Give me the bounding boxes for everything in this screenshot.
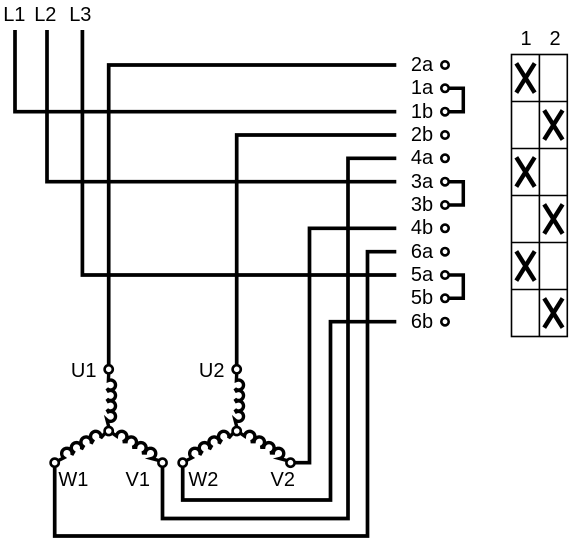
- winding 2 label V2: [235, 470, 295, 490]
- terminal label 1b: [402, 102, 442, 122]
- wire terminal 6a to W1: [55, 252, 397, 536]
- winding 2 label U2: [165, 361, 225, 381]
- terminal label 1a: [402, 78, 442, 98]
- wire L2 to terminal 3a: [47, 30, 396, 182]
- switch table X mark row2 col2: [544, 110, 562, 139]
- winding 1 star node: [105, 427, 113, 435]
- wire L1 to terminal 1b: [15, 30, 396, 112]
- terminal circle 2a: [441, 61, 448, 68]
- wire terminal 2a to U1: [109, 65, 397, 365]
- terminal label 2b: [402, 125, 442, 145]
- terminal label 3a: [402, 172, 442, 192]
- node label L1: [3, 5, 25, 25]
- winding 1 coil U1 (vertical inductor): [107, 374, 116, 427]
- switch table grid: [512, 55, 568, 337]
- terminal label 5b: [402, 288, 442, 308]
- switch table X mark row6 col2: [544, 298, 562, 327]
- wire terminal 2b to U2: [237, 135, 397, 365]
- winding 2 coil V2 (right slanted inductor): [240, 431, 286, 460]
- wire terminal 6b to W2: [183, 322, 397, 500]
- wire terminal 4a to V1: [163, 158, 397, 518]
- terminal circle 4b: [441, 225, 448, 232]
- winding 1 coil W1 (left slanted inductor): [58, 431, 104, 460]
- terminal label 4b: [402, 218, 442, 238]
- switch table X mark row3 col1: [516, 157, 534, 186]
- node label L2: [34, 5, 56, 25]
- terminal label 4a: [402, 148, 442, 168]
- switch table X mark row1 col1: [516, 63, 534, 92]
- winding 1 terminal circle W1: [51, 459, 59, 467]
- winding 2 coil U2 (vertical inductor): [235, 374, 244, 427]
- winding 1 label U1: [37, 361, 97, 381]
- winding 2 terminal circle W2: [179, 459, 187, 467]
- bridge link 5a-5b: [450, 275, 464, 298]
- winding 1 label W1: [58, 470, 88, 490]
- winding 2 label W2: [188, 470, 218, 490]
- terminal circle 1a: [441, 85, 448, 92]
- terminal label 3b: [402, 195, 442, 215]
- terminal label 2a: [402, 55, 442, 75]
- wire terminal 4b to V2: [295, 228, 396, 462]
- terminal circle 3b: [441, 201, 448, 208]
- bridge link 3a-3b: [450, 182, 464, 205]
- winding 1 terminal circle U1: [105, 365, 113, 373]
- winding 2 coil W2 (left slanted inductor): [186, 431, 232, 460]
- winding 2 terminal circle U2: [233, 365, 241, 373]
- winding 1 coil V1 (right slanted inductor): [112, 431, 158, 460]
- wire L3 to terminal 5a: [82, 30, 396, 275]
- terminal circle 2b: [441, 131, 448, 138]
- terminal circle 5a: [441, 271, 448, 278]
- terminal circle 4a: [441, 155, 448, 162]
- terminal circle 1b: [441, 108, 448, 115]
- switch table X mark row5 col1: [516, 251, 534, 280]
- terminal label 6a: [402, 242, 442, 262]
- winding 2 star node: [233, 427, 241, 435]
- terminal circle 6b: [441, 318, 448, 325]
- winding 1 terminal circle V1: [158, 459, 166, 467]
- terminal circle 3a: [441, 178, 448, 185]
- winding 2 terminal circle V2: [286, 459, 294, 467]
- terminal label 5a: [402, 265, 442, 285]
- winding 1 label V1: [90, 470, 150, 490]
- switch table header 2: [535, 29, 575, 49]
- node label L3: [69, 5, 91, 25]
- switch table header 1: [506, 29, 546, 49]
- terminal circle 6a: [441, 248, 448, 255]
- terminal label 6b: [402, 312, 442, 332]
- switch table X mark row4 col2: [544, 204, 562, 233]
- bridge link 1a-1b: [450, 88, 464, 111]
- terminal circle 5b: [441, 295, 448, 302]
